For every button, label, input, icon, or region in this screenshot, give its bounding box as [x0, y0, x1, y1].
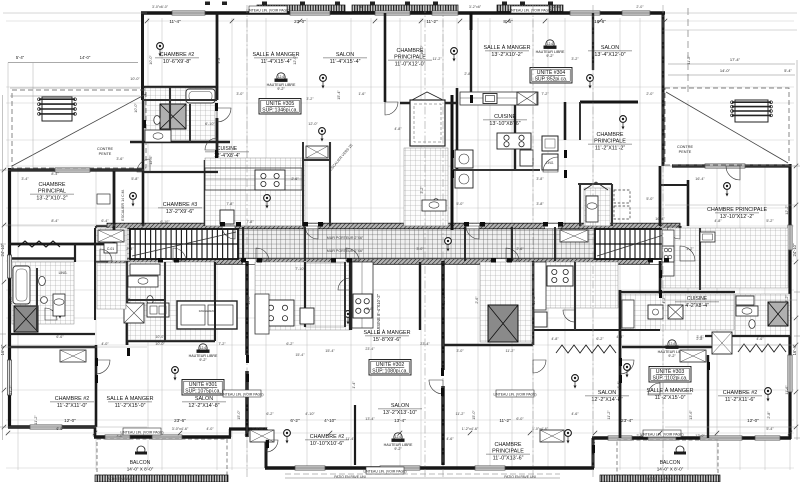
- svg-text:13'-6": 13'-6": [689, 410, 693, 420]
- svg-text:3'-0": 3'-0": [116, 434, 124, 438]
- linteau note box bottom right: [493, 390, 536, 397]
- stove 305: [255, 170, 285, 190]
- svg-text:11’-2”X15’-0”: 11’-2”X15’-0”: [115, 403, 146, 409]
- svg-text:9’-2”: 9’-2”: [199, 358, 207, 362]
- partition 301 bath c: [214, 262, 216, 341]
- svg-text:SUP.:1346pi.ca.: SUP.:1346pi.ca.: [262, 108, 298, 114]
- svg-text:4'-2": 4'-2": [686, 247, 694, 251]
- svg-text:2'-0": 2'-0": [636, 5, 644, 9]
- svg-text:4'-6": 4'-6": [571, 412, 579, 416]
- closet peak 304: [584, 182, 608, 190]
- kitchen tiles 303: [534, 262, 618, 308]
- left wing top wall: [8, 168, 144, 171]
- partition 304 d: [579, 102, 581, 140]
- wall bath cluster 305 north: [143, 86, 217, 88]
- svg-text:SALLE À MANGER: SALLE À MANGER: [106, 395, 153, 402]
- unit label #303: [649, 367, 691, 383]
- svg-text:6'-2": 6'-2": [290, 418, 300, 423]
- door swing cuisine 305: [205, 138, 217, 150]
- svg-text:8'-4": 8'-4": [51, 172, 59, 176]
- svg-text:12'-0": 12'-0": [747, 418, 759, 423]
- room label CHAMBRE: [486, 442, 530, 461]
- door swing corridor 1: [222, 226, 235, 239]
- room label SALON: [585, 390, 629, 403]
- smoke detector: [587, 75, 594, 89]
- svg-text:13'-4": 13'-4": [365, 417, 375, 421]
- wall bath cluster 305 south: [130, 141, 230, 143]
- svg-text:4'-2": 4'-2": [662, 296, 666, 304]
- svg-text:16'-4": 16'-4": [695, 177, 705, 181]
- bottom wall step left 2: [229, 429, 231, 437]
- vanity 301 cluster: [130, 264, 160, 275]
- left hall wall: [12, 257, 75, 259]
- room label CHAMBRE #2: [50, 396, 94, 409]
- wall cuisine 305 west: [216, 118, 219, 160]
- toilet 2: [39, 276, 46, 285]
- svg-text:SALLE À MANGER: SALLE À MANGER: [363, 329, 410, 336]
- svg-text:3'-2": 3'-2": [420, 186, 424, 194]
- left margin extension lines: [3, 13, 147, 427]
- svg-text:15'-4": 15'-4": [337, 90, 341, 100]
- svg-text:10'-0": 10'-0": [155, 335, 165, 339]
- svg-text:12’-2”X14’-8”: 12’-2”X14’-8”: [591, 397, 622, 403]
- window wing right: [705, 164, 745, 168]
- wardrobe lower left: [250, 430, 274, 442]
- vanity right unit: [736, 296, 754, 305]
- svg-text:11’-0”X12’-0”: 11’-0”X12’-0”: [395, 61, 426, 67]
- window left 1: [7, 255, 11, 278]
- wardrobe hall right: [560, 230, 588, 242]
- room label CUISINE: [205, 146, 249, 159]
- svg-text:11'-2": 11'-2": [499, 418, 511, 423]
- dim line top left wing: [8, 62, 138, 64]
- elevator shaft left: [14, 306, 38, 332]
- linen closets 304: [542, 136, 558, 170]
- fridge 301: [300, 308, 314, 324]
- svg-text:PATIO EN PAVE UNI: PATIO EN PAVE UNI: [334, 475, 366, 479]
- door swing corridor east to right unit: [680, 246, 695, 261]
- bottom wall right section: [592, 436, 791, 440]
- height gauge: [536, 40, 565, 58]
- demising wall 302/303: [441, 261, 444, 465]
- wall 305 bath west lower: [142, 142, 145, 226]
- toilet right unit: [749, 320, 755, 329]
- svg-text:PRINCIPALE: PRINCIPALE: [594, 138, 626, 144]
- window top 6: [622, 11, 650, 15]
- svg-text:10'-0": 10'-0": [134, 103, 138, 113]
- staircase right: [595, 229, 675, 259]
- patio right diagonal: [666, 92, 788, 163]
- laundry wall 304 b: [579, 184, 581, 226]
- partition 305 closet wall: [302, 142, 304, 226]
- svg-text:UNITÉ #301: UNITÉ #301: [189, 381, 218, 388]
- corridor door gap north 3: [466, 224, 479, 229]
- svg-text:CHAMBRE #3: CHAMBRE #3: [163, 202, 197, 208]
- svg-text:6'-10": 6'-10": [160, 220, 170, 224]
- svg-text:10'-0": 10'-0": [420, 45, 424, 55]
- wall chambre principale 304 west: [564, 102, 567, 140]
- svg-text:CHAMBRE #2: CHAMBRE #2: [160, 52, 194, 58]
- svg-text:11'-2": 11'-2": [34, 415, 38, 425]
- corridor closet box C-01: [104, 243, 117, 253]
- corridor north bearing wall: [107, 223, 680, 229]
- kitchen sink right unit: [700, 232, 715, 242]
- svg-text:23'-6": 23'-6": [174, 418, 186, 423]
- svg-text:1'-6": 1'-6": [358, 92, 366, 96]
- svg-text:2'-8": 2'-8": [126, 247, 134, 251]
- right wing top wall: [672, 164, 791, 167]
- svg-text:LINTEAU LIN. (VOIR PAGE): LINTEAU LIN. (VOIR PAGE): [120, 430, 163, 434]
- partition 305 hall south: [143, 171, 218, 173]
- closet shelf 305: [303, 159, 330, 161]
- right unit kitchen north wall: [620, 291, 735, 293]
- storage closet 301: [177, 301, 237, 329]
- window bottom 2: [105, 435, 130, 439]
- room label SALLE À MANGER: [483, 44, 530, 58]
- window bottom 6: [475, 466, 505, 470]
- svg-text:6'-10": 6'-10": [205, 122, 215, 126]
- laundry tiles 304: [584, 188, 610, 226]
- wall bath cluster 305 west: [142, 100, 144, 142]
- linteau note box top left: [246, 6, 289, 13]
- svg-text:LING.: LING.: [59, 271, 68, 275]
- svg-text:11’-4”X15’-4”: 11’-4”X15’-4”: [261, 59, 292, 65]
- wall chambre principale 304 north: [580, 101, 638, 104]
- svg-text:SUP.:852pi.ca.: SUP.:852pi.ca.: [535, 77, 568, 83]
- svg-text:11’-2”X11’-0”: 11’-2”X11’-0”: [57, 403, 88, 409]
- door swing wing right: [726, 166, 740, 180]
- svg-text:UNITÉ #303: UNITÉ #303: [656, 368, 685, 375]
- svg-text:13’-2”X10’-2”: 13’-2”X10’-2”: [36, 195, 67, 201]
- wall 303 interior south: [443, 344, 533, 346]
- top deck posts: [205, 2, 553, 6]
- door swing right unit: [667, 226, 680, 239]
- svg-text:LINTEAU LIN. (VOIR PAGE): LINTEAU LIN. (VOIR PAGE): [220, 392, 263, 396]
- svg-text:6'-2": 6'-2": [596, 337, 604, 341]
- svg-text:SALON: SALON: [391, 403, 409, 409]
- room label SALON: [323, 52, 367, 65]
- svg-text:9’-2”: 9’-2”: [668, 354, 676, 358]
- right margin extension lines: [665, 13, 797, 427]
- svg-text:2'-0": 2'-0": [646, 92, 654, 96]
- counter right unit: [662, 230, 674, 276]
- svg-text:LINTEAU LIN. (VOIR PAGE): LINTEAU LIN. (VOIR PAGE): [508, 8, 551, 12]
- corridor vestibule walls: [243, 227, 555, 261]
- svg-text:PENTE: PENTE: [679, 150, 692, 154]
- smoke detector: [724, 183, 731, 197]
- svg-text:4'-6": 4'-6": [446, 437, 454, 441]
- wall 301 kitchen east: [350, 261, 352, 330]
- AC coil right patio: [731, 100, 773, 122]
- corridor floor tiles: [96, 228, 680, 261]
- svg-text:10'-2": 10'-2": [532, 295, 536, 305]
- patio left diagonal: [12, 94, 146, 166]
- svg-text:15'-0": 15'-0": [442, 295, 446, 305]
- svg-text:17'-4": 17'-4": [730, 57, 741, 62]
- room label CHAMBRE: [588, 132, 632, 151]
- demising wall left/301: [245, 261, 248, 437]
- svg-text:SALLE À MANGER: SALLE À MANGER: [483, 44, 530, 51]
- patio right dashed outline: [665, 88, 789, 165]
- partition 301 bath b: [128, 299, 165, 301]
- sink 304: [483, 94, 497, 104]
- axis dash-dot lines vertical: [247, 5, 663, 478]
- svg-text:6'-4": 6'-4": [101, 219, 109, 223]
- lower unit right wall: [592, 438, 595, 468]
- window top 1: [172, 11, 205, 15]
- svg-text:RANGEMENT: RANGEMENT: [199, 309, 216, 313]
- closet bifold doors right unit: [738, 344, 786, 352]
- svg-text:13’-10”X8’-6”: 13’-10”X8’-6”: [489, 121, 520, 127]
- svg-text:PATIO EN PAVE UNI: PATIO EN PAVE UNI: [504, 475, 536, 479]
- exterior wall top-right vertical: [662, 13, 665, 166]
- top balcony hatched strip right: [497, 5, 563, 12]
- lower unit bottom wall: [265, 466, 594, 470]
- room label SALLE À MANGER: [363, 329, 410, 343]
- wall 304 bath east: [514, 102, 516, 170]
- window top 2: [290, 11, 330, 15]
- smoke detector: [451, 48, 458, 62]
- svg-text:10'-0": 10'-0": [155, 342, 165, 346]
- corridor door gap south 2: [243, 259, 256, 264]
- svg-text:SALON: SALON: [195, 396, 213, 402]
- window bottom 3: [152, 435, 182, 439]
- hall tiles 302: [480, 262, 532, 342]
- right unit bath south wall: [705, 335, 790, 337]
- partition left mid d: [94, 228, 96, 320]
- smoke detector: [264, 195, 271, 209]
- svg-text:10’-10”X10’-6”: 10’-10”X10’-6”: [310, 441, 344, 447]
- wall 304 kitchen north-west: [400, 102, 457, 104]
- pass-through X box 304: [517, 92, 537, 105]
- svg-text:5'-2": 5'-2": [766, 219, 774, 223]
- elevator shaft center: [488, 305, 518, 342]
- svg-text:11'-0": 11'-0": [9, 295, 13, 305]
- svg-text:CUISINE: CUISINE: [217, 146, 238, 152]
- room label CHAMBRE: [30, 182, 74, 201]
- door swing chambre principale 305: [385, 102, 398, 115]
- linteau note box bottom left: [220, 390, 263, 397]
- bathroom tiles 301 upper: [128, 262, 214, 340]
- svg-text:8'-4": 8'-4": [51, 219, 59, 223]
- wall salon 305 stub: [384, 13, 387, 102]
- patio left dashed outline: [12, 90, 146, 168]
- svg-text:4'-8": 4'-8": [551, 337, 559, 341]
- wall cuisine 305 west lower: [204, 160, 207, 226]
- room label CUISINE: [675, 296, 719, 309]
- svg-text:12'-2": 12'-2": [785, 205, 789, 215]
- right unit kitchen tiles: [622, 294, 734, 330]
- toilet 1: [154, 116, 160, 125]
- svg-text:9’-2”: 9’-2”: [277, 87, 285, 91]
- svg-text:9’-2”: 9’-2”: [546, 54, 554, 58]
- svg-text:CUISINE: CUISINE: [494, 114, 516, 120]
- svg-text:11'-4": 11'-4": [345, 437, 355, 441]
- balcony gauge left: [135, 446, 147, 455]
- partition 301 bath a: [164, 262, 166, 341]
- svg-text:UNITÉ #302: UNITÉ #302: [376, 361, 405, 368]
- svg-text:11'-2": 11'-2": [9, 385, 13, 395]
- smoke detector: [157, 43, 164, 57]
- smoke detector: [284, 430, 291, 444]
- svg-text:12-6: 12-6: [547, 42, 554, 46]
- wing dimension lines left: [10, 88, 140, 96]
- svg-text:11’-4”X15’-4”: 11’-4”X15’-4”: [330, 59, 361, 65]
- svg-text:4'-8": 4'-8": [714, 219, 722, 223]
- svg-text:5'-4": 5'-4": [766, 427, 774, 431]
- svg-text:23'-4": 23'-4": [420, 342, 430, 346]
- wardrobe left bedroom: [60, 350, 86, 362]
- window bottom 8: [648, 436, 676, 440]
- fridge 304: [520, 150, 533, 166]
- door swing corridor 6: [346, 248, 359, 261]
- wall 304 entry: [470, 30, 472, 102]
- svg-text:3'-8": 3'-8": [536, 202, 544, 206]
- svg-text:4'-10": 4'-10": [324, 418, 336, 423]
- room label SALLE À MANGER: [646, 387, 693, 401]
- room label SALON: [182, 396, 226, 409]
- svg-text:11'-6": 11'-6": [785, 385, 789, 395]
- svg-text:15'-0": 15'-0": [237, 410, 241, 420]
- demising wall gap 3: [441, 370, 446, 386]
- linteau note box balcony right: [640, 430, 683, 437]
- window top 5: [570, 11, 600, 15]
- window right 2: [788, 355, 792, 392]
- corridor door gap north 4: [545, 224, 558, 229]
- entry hall tiles 301: [97, 263, 126, 309]
- svg-text:CHAMBRE: CHAMBRE: [597, 132, 624, 138]
- svg-text:8'-6": 8'-6": [503, 19, 513, 24]
- door swing laundry: [338, 278, 350, 290]
- right unit bathroom tiles: [735, 294, 790, 336]
- wardrobe lower right: [540, 430, 564, 442]
- svg-text:9’-2”: 9’-2”: [394, 447, 402, 451]
- left exterior wall: [8, 168, 11, 428]
- svg-text:6'-6": 6'-6": [56, 335, 64, 339]
- shower 305: [160, 104, 186, 129]
- svg-text:11'-2": 11'-2": [455, 412, 465, 416]
- height gauge: [658, 340, 687, 358]
- balcony left hatch strip: [95, 475, 228, 482]
- door swing bedroom 305: [217, 108, 231, 122]
- unit label #305: [259, 99, 301, 115]
- svg-text:2'-6": 2'-6": [516, 247, 524, 251]
- svg-text:11'-2": 11'-2": [426, 19, 438, 24]
- bottom wall far-left section: [8, 425, 95, 429]
- right unit sink: [648, 305, 663, 319]
- lower unit left wall: [265, 429, 268, 468]
- svg-text:MUR PORTEUR 2”X6”: MUR PORTEUR 2”X6”: [327, 236, 364, 240]
- window bottom 1: [30, 425, 62, 429]
- stove 303: [547, 266, 573, 286]
- door swing chambre principale 304: [543, 157, 558, 172]
- svg-text:12-6: 12-6: [200, 346, 207, 350]
- partition bath 305 b: [169, 87, 171, 142]
- svg-text:3'-0": 3'-0": [416, 247, 424, 251]
- washer dryer 304 cluster: [455, 150, 473, 188]
- corridor door gap south 5: [650, 259, 663, 264]
- interior dimension noise: [21, 57, 774, 438]
- svg-text:13'-2": 13'-2": [785, 295, 789, 305]
- svg-text:11'-2": 11'-2": [505, 349, 515, 353]
- svg-text:15'-4": 15'-4": [295, 353, 305, 357]
- room label CHAMBRE #2: [305, 434, 349, 447]
- svg-text:3'-6": 3'-6": [116, 157, 124, 161]
- corridor door gap north 1: [222, 224, 235, 229]
- fridge 303: [534, 312, 547, 327]
- door swing 303 kitchen: [563, 310, 575, 322]
- bathtub left mid: [13, 266, 30, 304]
- room label CUISINE: [483, 114, 527, 127]
- wall left unit bedroom east: [95, 345, 98, 427]
- hall tiles 302 entry: [305, 263, 345, 327]
- room label SALLE À MANGER: [106, 395, 153, 409]
- toilet 305 south: [433, 199, 439, 208]
- svg-text:6'-2": 6'-2": [286, 342, 294, 346]
- svg-text:15'-0": 15'-0": [247, 295, 251, 305]
- wardrobe 301 a: [98, 230, 124, 242]
- window bottom 9: [700, 436, 742, 440]
- stove 301: [262, 300, 294, 326]
- kitchen tiles right unit: [662, 228, 788, 288]
- svg-text:5'-0": 5'-0": [646, 197, 654, 201]
- svg-text:13’-2”X10’-2”: 13’-2”X10’-2”: [491, 52, 522, 58]
- svg-text:SUP.:1075pi.ca.: SUP.:1075pi.ca.: [185, 389, 221, 395]
- top balcony hatched strip middle: [352, 5, 458, 12]
- smoke detector: [172, 367, 179, 381]
- room label CHAMBRE #2: [718, 390, 762, 403]
- svg-text:12-6: 12-6: [278, 75, 285, 79]
- svg-text:3'-2": 3'-2": [306, 97, 314, 101]
- window top 3: [375, 11, 410, 15]
- svg-text:11’-2”X11’-6”: 11’-2”X11’-6”: [725, 397, 756, 403]
- door swing 302: [429, 380, 443, 394]
- svg-text:CONTRE: CONTRE: [97, 147, 113, 151]
- wall right unit cuisine west: [659, 261, 662, 330]
- height gauge: [384, 433, 413, 451]
- svg-text:1'-6": 1'-6": [356, 5, 364, 9]
- svg-text:CHAMBRE PRINCIPALE: CHAMBRE PRINCIPALE: [707, 207, 768, 213]
- svg-text:18'-8": 18'-8": [594, 19, 606, 24]
- svg-text:BALCON: BALCON: [130, 460, 151, 466]
- svg-text:7'-2": 7'-2": [218, 342, 226, 346]
- kitchen wall 302 west: [349, 262, 351, 330]
- fridge 305: [220, 210, 234, 224]
- svg-text:PATIO EN PAVE: PATIO EN PAVE: [107, 477, 134, 481]
- balcony left dashed outline: [97, 439, 227, 475]
- balcony gauge right: [674, 446, 686, 455]
- svg-text:LINTEAU LIN. (VOIR PAGE): LINTEAU LIN. (VOIR PAGE): [246, 8, 289, 12]
- exterior wall top: [141, 11, 665, 15]
- svg-text:9'-8": 9'-8": [217, 56, 221, 64]
- svg-text:CHAMBRE #2: CHAMBRE #2: [55, 396, 89, 402]
- svg-text:3'-4": 3'-4": [21, 177, 29, 181]
- svg-text:5'-6": 5'-6": [127, 296, 131, 304]
- room label SALON: [378, 403, 422, 416]
- svg-text:13’-10”X12’-2”: 13’-10”X12’-2”: [720, 214, 754, 220]
- stove 302: [353, 294, 372, 318]
- hall 302 west wall: [304, 262, 306, 327]
- closet bifold doors 303: [556, 345, 616, 353]
- smoke detector: [572, 375, 579, 389]
- demising wall gap 2: [245, 355, 250, 371]
- svg-text:CONTRE: CONTRE: [677, 145, 693, 149]
- wall left unit bedroom north: [10, 346, 96, 349]
- svg-text:C-01: C-01: [107, 247, 114, 251]
- svg-text:2'-6": 2'-6": [475, 296, 479, 304]
- door swing corridor 5: [256, 248, 269, 261]
- height gauge: [267, 73, 296, 91]
